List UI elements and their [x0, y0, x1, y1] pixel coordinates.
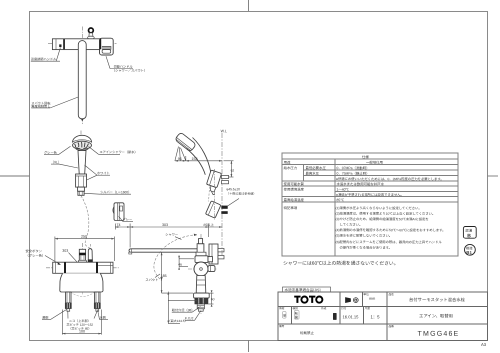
- spout (side): [129, 249, 202, 252]
- leader from ring note to pins: [227, 199, 239, 207]
- svg-text:P.J1/2: P.J1/2: [185, 316, 194, 320]
- svg-text:尺度: 尺度: [365, 306, 371, 310]
- svg-text:給水圧力: 給水圧力: [284, 165, 298, 170]
- shower spray face: [73, 141, 92, 149]
- faucet body bar: [52, 39, 100, 50]
- shank tip: [198, 309, 203, 311]
- svg-text:0．07MPa（流動時）: 0．07MPa（流動時）: [336, 165, 369, 170]
- svg-text:303: 303: [162, 223, 168, 227]
- base trapezoid: [60, 273, 103, 292]
- svg-text:46: 46: [178, 262, 182, 266]
- svg-text:（＋側公差は参考値）: （＋側公差は参考値）: [226, 191, 256, 196]
- centerline vertical: [200, 234, 202, 314]
- svg-text:単位: 単位: [363, 292, 369, 296]
- svg-text:74: 74: [116, 223, 120, 227]
- svg-text:B1: B1: [466, 250, 472, 255]
- shower hose connector ring: [89, 28, 94, 33]
- shower head detail view: [44, 131, 138, 249]
- svg-text:16.01.15: 16.01.15: [342, 314, 359, 319]
- approval stamp B1: [465, 244, 476, 255]
- dim 62 right vertical: [224, 161, 234, 177]
- svg-text:安全ボタン: 安全ボタン: [25, 248, 42, 253]
- label シルバー(L=1600): [84, 189, 131, 194]
- switch handle (rounded): [100, 38, 114, 55]
- deck flange: [194, 293, 210, 298]
- wall holder column: [209, 244, 218, 264]
- grip white part: [76, 174, 87, 187]
- right leg: [95, 292, 100, 303]
- label 湯側: [42, 310, 67, 320]
- label ホワイト: [85, 165, 111, 180]
- label 温度調節ハンドル: [31, 48, 61, 62]
- dim max vertical bottom left: [168, 292, 197, 324]
- svg-text:グレー: グレー: [123, 216, 133, 221]
- clamp right: [96, 262, 98, 273]
- small stamps: [283, 311, 337, 320]
- svg-text:（グレー色）: （グレー色）: [25, 253, 45, 258]
- dimension 250: [55, 237, 115, 262]
- center mark top: [248, 0, 250, 11]
- valve body circle: [194, 262, 208, 276]
- svg-text:品名: 品名: [388, 292, 394, 296]
- svg-text:(3)やけど防止のため、給湯側の給湯温度を50℃未満AIに設: (3)やけど防止のため、給湯側の給湯温度を50℃未満AIに設定を: [335, 216, 428, 221]
- svg-text:303: 303: [62, 249, 68, 253]
- centerline: [80, 131, 82, 198]
- clamp line left: [63, 39, 65, 49]
- svg-text:(1)湯側が水圧より高くならないように設定してください。: (1)湯側が水圧より高くならないように設定してください。: [335, 205, 421, 210]
- centerline vertical: [82, 243, 84, 295]
- svg-text:B: B: [467, 233, 471, 239]
- centerline horizontal: [46, 267, 119, 269]
- svg-text:台付サーモスタット混合水栓: 台付サーモスタット混合水栓: [409, 296, 466, 303]
- hose connector: [78, 187, 85, 191]
- JIS compliance box: [283, 287, 331, 292]
- svg-text:TMGG46E: TMGG46E: [418, 331, 460, 338]
- lower bracket position: [205, 201, 220, 218]
- dim 60 vertical right: [208, 293, 213, 304]
- left nut: [65, 303, 71, 309]
- svg-text:してください。: してください。: [339, 222, 362, 227]
- connector under spout: [196, 252, 206, 256]
- svg-text:A3: A3: [481, 342, 487, 347]
- title block: [278, 292, 488, 340]
- handle grip ridges: [102, 46, 111, 50]
- svg-text:250: 250: [81, 235, 87, 239]
- threaded shank: [197, 304, 204, 309]
- label 切替ハンドル: [106, 56, 147, 72]
- svg-text:1：5: 1：5: [370, 314, 380, 319]
- right nut: [94, 303, 100, 309]
- approval stamp B: [463, 227, 476, 256]
- svg-text:(4)熱湯側の水温停を確認するために50℃～60℃に設定をお: (4)熱湯側の水温停を確認するために50℃～60℃に設定をおすすめします。: [335, 227, 445, 232]
- svg-text:グレー色: グレー色: [44, 150, 58, 155]
- riser above body: [197, 244, 204, 254]
- shower tail tip: [211, 186, 217, 192]
- svg-text:温度調節ハンドル: 温度調節ハンドル: [31, 56, 57, 61]
- svg-text:取付穴径（38）: 取付穴径（38）: [172, 307, 195, 312]
- svg-text:使用可能水質: 使用可能水質: [284, 181, 305, 186]
- TOTO logo: [294, 296, 322, 303]
- svg-text:ホワイト: ホワイト: [97, 170, 110, 175]
- dim 46 vertical: [179, 256, 194, 267]
- svg-text:●快適にお使いいただくためには、0．2MPa程度の圧力を必要: ●快適にお使いいただくためには、0．2MPa程度の圧力を必要とします。: [336, 176, 444, 181]
- connector neck: [89, 33, 93, 37]
- wall hook detail: [113, 203, 133, 222]
- pitch note 3 lines: [66, 318, 93, 331]
- dimension 100: [62, 310, 101, 335]
- centerline horizontal through body: [188, 268, 217, 270]
- label スパウト回転: [31, 97, 78, 108]
- body bar (front): [53, 262, 113, 273]
- svg-text:153: 153: [191, 157, 197, 161]
- dashed transfer lines to lower position: [208, 187, 211, 202]
- shower elbow stub (front): [88, 249, 92, 260]
- holder pins: [222, 175, 229, 178]
- side knob: [208, 266, 215, 272]
- svg-text:湯側: 湯側: [42, 315, 48, 320]
- spray indication triangle: [175, 147, 186, 161]
- svg-text:水道法基準適合品[JIS]: 水道法基準適合品[JIS]: [284, 287, 320, 292]
- centerline vertical through spout: [81, 27, 83, 125]
- spout tip arrow: [81, 118, 84, 121]
- svg-text:〔9L〕: 〔9L〕: [51, 159, 61, 164]
- svg-text:シルバー（L＝1600）: シルバー（L＝1600）: [100, 189, 131, 194]
- svg-text:60: 60: [211, 297, 215, 301]
- svg-text:(6)配管内などにスチームをご使用の際は、器具内の圧力上昇で: (6)配管内などにスチームをご使用の際は、器具内の圧力上昇でハンドル: [335, 239, 442, 244]
- label グレー色: [44, 146, 71, 154]
- svg-text:検図: 検図: [292, 306, 298, 310]
- svg-text:シャワー: シャワー: [165, 232, 178, 237]
- side view of faucet: [115, 222, 224, 324]
- svg-text:使用環境温度: 使用環境温度: [284, 187, 305, 192]
- label 9L: [51, 159, 78, 168]
- shower head (tilted capsule): [175, 132, 197, 152]
- svg-text:100: 100: [79, 329, 85, 333]
- svg-text:85℃: 85℃: [336, 198, 344, 202]
- svg-text:特記事項: 特記事項: [284, 205, 298, 210]
- hidden arc under base: [71, 292, 95, 297]
- svg-text:最高水圧: 最高水圧: [305, 171, 319, 176]
- svg-text:85以上: 85以上: [203, 222, 214, 227]
- shower handle: [78, 151, 86, 174]
- label エアインシャワー(節水): [89, 147, 138, 155]
- svg-text:エアイン、取替用: エアイン、取替用: [419, 312, 453, 319]
- lock nut: [195, 298, 208, 304]
- svg-text:0．75MPa（静止時）: 0．75MPa（静止時）: [336, 171, 369, 176]
- svg-text:水側: 水側: [99, 315, 105, 320]
- dim line 95 / 153: [175, 156, 222, 161]
- svg-text:W.L: W.L: [221, 129, 227, 133]
- center mark right: [488, 175, 499, 177]
- svg-text:日付: 日付: [341, 306, 347, 310]
- svg-text:仕様: 仕様: [362, 154, 369, 159]
- svg-text:95: 95: [178, 157, 182, 161]
- center mark bottom: [248, 340, 250, 352]
- svg-text:62: 62: [231, 168, 235, 172]
- svg-text:図: 図: [295, 315, 298, 319]
- holder bracket: [206, 170, 221, 188]
- label 水側: [98, 310, 109, 320]
- hose dashed curve to faucet: [81, 196, 90, 249]
- top view of faucet: [31, 27, 147, 125]
- svg-text:1～40℃: 1～40℃: [336, 188, 349, 192]
- svg-text:用途: 用途: [284, 160, 291, 165]
- cell labels: [279, 292, 394, 328]
- label 安全ボタン(グレー色) leader arrow: [25, 248, 60, 265]
- shower elbow to wall: [195, 256, 208, 263]
- left leg: [66, 292, 71, 303]
- head bottom rim: [76, 149, 88, 151]
- svg-text:(5)湯水を逆に配管しないでください。: (5)湯水を逆に配管しないでください。: [335, 233, 392, 238]
- svg-text:品番: 品番: [388, 324, 394, 328]
- svg-text:mm: mm: [369, 297, 375, 301]
- svg-text:最低必要水圧: 最低必要水圧: [305, 165, 326, 170]
- spec table 仕様: [282, 153, 458, 256]
- top dimensions 74 / 303 / 85以上: [115, 224, 222, 248]
- handle curve: [193, 138, 211, 173]
- clamp left: [64, 262, 66, 273]
- third angle projection symbol: [346, 298, 359, 303]
- svg-text:●凍結が予想される場所には設置できません。: ●凍結が予想される場所には設置できません。: [336, 192, 404, 197]
- column below body: [196, 276, 206, 294]
- front view of faucet: [25, 235, 119, 335]
- spout (plan): [78, 41, 86, 119]
- hand shower on wall (side view): [175, 129, 257, 256]
- svg-text:認溝: 認溝: [465, 228, 472, 233]
- svg-text:転載禁止: 転載禁止: [300, 330, 315, 335]
- clamp line right: [100, 39, 102, 50]
- svg-text:作成: 作成: [321, 306, 327, 310]
- svg-text:水道水または飲用可能な井戸水: 水道水または飲用可能な井戸水: [336, 181, 384, 186]
- center mark left: [0, 175, 30, 177]
- hose nut: [78, 191, 84, 195]
- shower swing arc: [154, 235, 197, 281]
- svg-text:一般地仕用: 一般地仕用: [366, 160, 383, 165]
- svg-text:(2)給湯温度は、使用する温度より10℃以上高く設定してくだ: (2)給湯温度は、使用する温度より10℃以上高く設定してください。: [335, 211, 435, 216]
- svg-text:エアインシャワー（節水）: エアインシャワー（節水）: [99, 149, 137, 154]
- temperature handle (front): [79, 249, 85, 260]
- svg-text:承認: 承認: [279, 306, 285, 310]
- holder axis centerline: [214, 169, 216, 220]
- centerline horizontal: [48, 42, 117, 44]
- svg-text:185: 185: [161, 274, 167, 278]
- svg-text:の操作が重くなる場合があります。: の操作が重くなる場合があります。: [339, 245, 391, 250]
- shower head dome: [73, 135, 92, 142]
- svg-text:備考: 備考: [279, 324, 285, 328]
- svg-text:スパウト: スパウト: [145, 277, 158, 282]
- svg-text:最高給湯温度: 最高給湯温度: [284, 197, 305, 202]
- dim 185 vertical: [162, 252, 193, 293]
- safety button: [59, 44, 61, 47]
